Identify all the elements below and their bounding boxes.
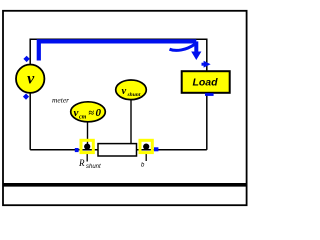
wire meter bottom [29,93,31,150]
bus dot left [75,148,79,152]
svg-text:v: v [74,107,79,119]
svg-text:v: v [27,70,35,87]
voltmeter V1 [16,65,44,93]
node A dot [84,144,90,150]
caption rule [3,183,247,187]
wire bottom bus left [30,149,98,151]
highlight hook arrow [170,44,195,50]
node B dot [143,144,149,150]
svg-text:0: 0 [96,107,102,119]
annotation ring node B [140,140,152,152]
wire load bottom [206,93,208,150]
resistor Rshunt [98,144,137,156]
node stub A [86,153,88,162]
svg-text:shunt: shunt [86,164,101,170]
load bottom dash [205,93,214,96]
wire bottom bus right [137,149,207,151]
bus dot right [154,147,158,151]
border frame [3,11,247,205]
annotation vshunt ellipse [116,80,147,100]
svg-text:meter: meter [52,96,69,105]
highlight arrow down [194,41,198,52]
node stub B [145,153,147,161]
annotation vm ellipse [71,102,106,122]
probe dot top [23,56,29,62]
svg-text:≈: ≈ [89,108,95,119]
svg-text:shunt: shunt [127,92,141,98]
wire top loop [30,39,207,71]
highlight arrow right [202,63,204,66]
annotation ring node A [81,140,93,152]
pointer wire vm to node A [87,122,89,144]
svg-text:R: R [78,158,85,168]
pointer wire vshunt to Rshunt [130,100,132,144]
probe dot bottom [23,94,29,100]
current path highlight [39,41,197,60]
svg-text:v: v [122,86,127,97]
svg-text:cm: cm [79,114,87,120]
load box [182,71,230,93]
svg-text:Load: Load [192,77,218,89]
